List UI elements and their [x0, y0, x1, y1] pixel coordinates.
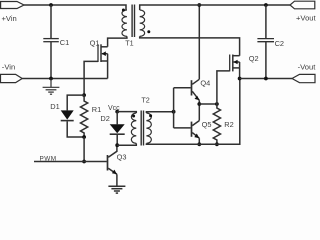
terminal +Vout	[290, 1, 315, 9]
Q2 body arrow	[234, 61, 240, 63]
Q2 drain stub	[233, 55, 240, 57]
Q1 body arrow	[102, 53, 108, 55]
node D2/T2/Q3 collector	[115, 143, 119, 147]
wire T1 secondary bottom to Q2 drain	[140, 36, 240, 55]
Q2 source stub	[233, 67, 240, 69]
wire Q5 base lead	[174, 127, 191, 129]
wire top rail left (+Vin to T1 primary)	[24, 5, 126, 10]
wire base drive vertical	[173, 88, 175, 128]
wire D1 cathode to bottom node	[67, 121, 84, 137]
Q3 collector	[108, 145, 117, 157]
Q4 base bar	[191, 80, 193, 95]
node Q2 source / -Vout rail	[238, 77, 242, 81]
node Q4 collector / top rail	[197, 3, 201, 7]
wire bottom node to PWM rail	[83, 137, 85, 162]
wire C2 upper lead	[265, 5, 267, 38]
Q1 source stub	[101, 60, 108, 62]
node Vcc	[115, 110, 119, 114]
Q3 base bar	[107, 155, 109, 171]
wire C1 lower lead	[50, 42, 52, 79]
wire C2 lower lead	[265, 42, 267, 79]
Q4 emitter	[192, 91, 199, 100]
svg-text:R1: R1	[92, 105, 101, 114]
wire Q4 base lead	[174, 87, 191, 89]
node D1/R1 bottom	[82, 135, 86, 139]
diode D2	[110, 124, 125, 134]
svg-text:+Vin: +Vin	[2, 14, 17, 23]
wire Q4 collector to top rail	[198, 5, 200, 79]
terminal -Vout	[292, 74, 315, 82]
node Q5 emitter / bottom rail	[197, 142, 201, 146]
T1 primary phase dot	[122, 9, 125, 12]
capacitor C1	[43, 39, 59, 42]
wire to D1 anode	[67, 95, 84, 110]
ground (Q3 emitter)	[108, 186, 125, 193]
T1 primary winding	[122, 10, 127, 36]
wire Q2 gate lead	[217, 71, 230, 104]
svg-text:D1: D1	[50, 102, 59, 111]
transistor Q3 (NPN)	[108, 145, 117, 185]
node C1 top	[49, 3, 53, 7]
wire Q5 collector to mid node	[198, 104, 200, 121]
node Q4 emitter / Q5 collector	[197, 102, 201, 106]
node R2 top / Q2 gate	[215, 102, 219, 106]
terminal +Vin	[1, 2, 24, 9]
transistor Q1 (N-MOSFET)	[98, 44, 108, 62]
wire D2 cathode to node	[116, 135, 118, 145]
ground (input)	[43, 79, 60, 95]
wire ground rail (-Vin to Q1 source corner)	[22, 78, 107, 80]
T1 core	[131, 5, 133, 38]
Q3 emitter	[108, 168, 117, 174]
Q5 emitter	[192, 133, 199, 139]
wire Q1 gate lead	[84, 61, 98, 95]
node base drive	[172, 110, 176, 114]
svg-text:Q1: Q1	[90, 39, 100, 48]
transformer T2	[117, 111, 152, 146]
Q4 collector	[192, 79, 199, 84]
svg-text:T2: T2	[141, 96, 149, 105]
svg-text:-Vout: -Vout	[298, 62, 317, 71]
svg-text:PWM: PWM	[40, 155, 57, 162]
node gate/D1/R1 top	[82, 93, 86, 97]
svg-text:+Vout: +Vout	[296, 14, 317, 23]
svg-text:Q5: Q5	[202, 120, 212, 129]
svg-text:T1: T1	[125, 39, 133, 48]
node ground rail / C1 bottom	[49, 77, 53, 81]
svg-text:C2: C2	[275, 39, 284, 48]
transformer T1	[122, 5, 150, 38]
Q2 gate bar	[229, 55, 231, 72]
wire T1 primary bottom to Q1 drain	[108, 36, 127, 46]
Q5 collector	[192, 121, 199, 126]
T2 secondary phase dot	[149, 114, 152, 117]
resistor R1	[81, 95, 88, 137]
transistor Q5 (NPN)	[192, 121, 200, 145]
terminal -Vin	[1, 74, 23, 82]
Q1 channel bar	[100, 44, 102, 62]
Q5 base bar	[191, 122, 193, 137]
Q1 drain stub	[101, 46, 108, 48]
svg-text:C1: C1	[60, 38, 69, 47]
T2 core	[140, 111, 142, 146]
svg-text:Q3: Q3	[117, 153, 127, 162]
node C2 bottom	[264, 77, 268, 81]
svg-text:Q4: Q4	[200, 78, 210, 87]
Q2 channel bar	[232, 55, 234, 72]
transistor Q4 (NPN)	[192, 79, 200, 104]
wire Q2 source to -Vout rail	[239, 68, 241, 79]
T2 primary phase dot	[132, 115, 135, 118]
wire PWM rail	[34, 161, 107, 163]
node PWM junction	[82, 160, 86, 164]
resistor R2	[213, 104, 220, 144]
wire bottom rail (T2 to right corner)	[146, 79, 239, 145]
T1 secondary winding	[140, 10, 145, 36]
wire Vcc node to T2 primary top	[117, 112, 136, 113]
node C2 top	[264, 3, 268, 7]
wire Vcc node to D2 anode	[116, 112, 118, 125]
wire Q1 source to ground rail	[107, 61, 109, 79]
node R2 bottom	[215, 142, 219, 146]
wire top rail right (T1 secondary to +Vout)	[140, 5, 290, 10]
wire C1 upper lead	[50, 5, 52, 38]
svg-text:-Vin: -Vin	[2, 62, 15, 71]
svg-text:R2: R2	[224, 120, 233, 129]
svg-text:D2: D2	[100, 114, 109, 123]
capacitor C2	[257, 39, 274, 42]
T2 primary winding	[131, 113, 136, 143]
diode D1	[61, 110, 74, 120]
wire -Vout rail	[240, 78, 292, 80]
transistor Q2 (N-MOSFET)	[230, 55, 240, 72]
Q1 gate bar	[97, 44, 99, 62]
T1 secondary phase dot	[147, 30, 150, 33]
T2 secondary winding	[146, 113, 151, 143]
wire mid node to R2 top	[199, 103, 217, 105]
wire T2 secondary top to base node	[146, 112, 173, 113]
wire T2 primary bottom to D2 node	[117, 143, 136, 145]
svg-text:Q2: Q2	[249, 54, 259, 63]
